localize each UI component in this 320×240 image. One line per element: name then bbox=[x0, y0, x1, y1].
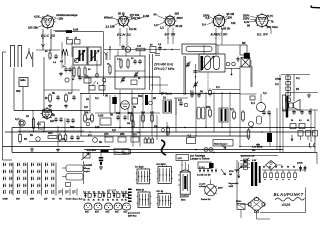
svg-text:0,1: 0,1 bbox=[116, 191, 119, 193]
svg-text:250V: 250V bbox=[177, 16, 183, 20]
svg-text:1k: 1k bbox=[26, 114, 29, 118]
svg-text:gemessen mit: gemessen mit bbox=[241, 155, 255, 158]
svg-text:0,1: 0,1 bbox=[299, 120, 302, 122]
svg-text:0,5: 0,5 bbox=[84, 105, 88, 109]
svg-text:0,65 3k: 0,65 3k bbox=[221, 26, 230, 30]
svg-text:EM84: EM84 bbox=[180, 195, 189, 199]
svg-text:5k: 5k bbox=[102, 199, 104, 201]
svg-text:1,2: 1,2 bbox=[160, 26, 164, 30]
svg-text:50: 50 bbox=[281, 167, 283, 169]
svg-text:8k: 8k bbox=[52, 113, 55, 117]
svg-text:235V: 235V bbox=[243, 17, 249, 21]
svg-text:0,1: 0,1 bbox=[275, 82, 279, 86]
svg-text:85 1k: 85 1k bbox=[118, 12, 125, 16]
svg-text:50: 50 bbox=[24, 137, 27, 141]
svg-text:ECH 81: ECH 81 bbox=[117, 32, 132, 37]
svg-text:5,7V: 5,7V bbox=[268, 14, 274, 18]
svg-text:64: 64 bbox=[154, 13, 157, 17]
svg-text:Netzschalter: Netzschalter bbox=[115, 151, 127, 154]
svg-text:5k: 5k bbox=[93, 199, 95, 201]
svg-text:50: 50 bbox=[275, 167, 277, 169]
svg-text:5k: 5k bbox=[88, 199, 90, 201]
svg-text:0,1: 0,1 bbox=[296, 76, 300, 80]
svg-text:470k: 470k bbox=[275, 77, 281, 81]
svg-text:0,1: 0,1 bbox=[88, 191, 91, 193]
svg-text:0,1: 0,1 bbox=[230, 107, 234, 111]
svg-text:30k: 30k bbox=[16, 89, 21, 93]
svg-text:62 2k: 62 2k bbox=[176, 24, 183, 28]
svg-text:Lampe u Rohre: Lampe u Rohre bbox=[190, 157, 210, 161]
svg-text:ratio: ratio bbox=[20, 78, 26, 82]
svg-text:0,5: 0,5 bbox=[178, 98, 182, 102]
svg-text:BLAUPUNKT: BLAUPUNKT bbox=[274, 192, 304, 197]
svg-text:50: 50 bbox=[307, 120, 309, 122]
svg-text:0,1: 0,1 bbox=[68, 91, 72, 95]
svg-text:12k: 12k bbox=[231, 21, 236, 25]
svg-text:50k: 50k bbox=[128, 111, 133, 115]
svg-text:220V: 220V bbox=[218, 188, 223, 190]
svg-text:50: 50 bbox=[263, 167, 265, 169]
svg-text:0,1: 0,1 bbox=[121, 191, 124, 193]
svg-text:0,5: 0,5 bbox=[206, 16, 210, 20]
svg-text:1M: 1M bbox=[127, 123, 130, 125]
svg-text:gemessen bei: gemessen bei bbox=[128, 213, 140, 215]
svg-text:0,1: 0,1 bbox=[98, 191, 101, 193]
svg-text:0,1 25k 0,5 1M: 0,1 25k 0,5 1M bbox=[197, 175, 211, 177]
svg-text:ZF Verst: ZF Verst bbox=[161, 92, 172, 96]
svg-text:0,1: 0,1 bbox=[102, 191, 105, 193]
svg-text:5k: 5k bbox=[52, 91, 55, 95]
svg-text:25k: 25k bbox=[120, 132, 125, 136]
svg-text:1k: 1k bbox=[86, 97, 89, 101]
svg-text:5k: 5k bbox=[121, 199, 123, 201]
svg-text:960mV: 960mV bbox=[104, 16, 113, 20]
svg-text:5,4: 5,4 bbox=[251, 101, 255, 105]
svg-text:470: 470 bbox=[104, 132, 109, 136]
svg-text:12k: 12k bbox=[95, 125, 100, 129]
svg-text:7k: 7k bbox=[271, 20, 274, 24]
svg-text:0,1: 0,1 bbox=[93, 191, 96, 193]
svg-text:1k: 1k bbox=[163, 96, 166, 100]
svg-text:1M: 1M bbox=[229, 174, 232, 176]
svg-text:schirm: schirm bbox=[199, 186, 206, 188]
svg-text:30: 30 bbox=[105, 94, 108, 98]
svg-text:0,1: 0,1 bbox=[216, 85, 220, 89]
svg-text:5k: 5k bbox=[125, 199, 127, 201]
svg-text:1,9 2k: 1,9 2k bbox=[129, 27, 137, 31]
svg-text:230: 230 bbox=[228, 16, 233, 20]
svg-text:0,5: 0,5 bbox=[112, 128, 116, 132]
svg-text:6,3V: 6,3V bbox=[244, 20, 250, 24]
svg-text:0,1: 0,1 bbox=[190, 90, 194, 94]
svg-text:5k: 5k bbox=[83, 199, 85, 201]
svg-text:50: 50 bbox=[200, 90, 203, 94]
svg-text:0,05 250V: 0,05 250V bbox=[87, 150, 97, 152]
svg-text:Klang: Klang bbox=[84, 168, 91, 170]
svg-text:regler: regler bbox=[84, 170, 90, 173]
svg-text:3k: 3k bbox=[99, 140, 102, 144]
svg-text:1,6: 1,6 bbox=[154, 23, 158, 27]
svg-text:5k: 5k bbox=[98, 199, 100, 201]
svg-text:5,4: 5,4 bbox=[202, 23, 206, 27]
svg-text:0,3: 0,3 bbox=[87, 117, 91, 121]
svg-text:300: 300 bbox=[48, 131, 53, 135]
svg-text:220V Netz: 220V Netz bbox=[128, 215, 137, 218]
svg-text:0,1: 0,1 bbox=[44, 115, 48, 119]
svg-text:5k: 5k bbox=[112, 199, 114, 201]
svg-text:25k: 25k bbox=[206, 105, 211, 109]
svg-text:50: 50 bbox=[287, 167, 289, 169]
svg-text:0,1: 0,1 bbox=[188, 134, 192, 138]
svg-text:TA: TA bbox=[52, 199, 55, 201]
svg-text:5k: 5k bbox=[116, 199, 118, 201]
svg-text:0,5: 0,5 bbox=[150, 111, 154, 115]
svg-text:4325: 4325 bbox=[281, 202, 292, 207]
svg-text:180 18k: 180 18k bbox=[28, 26, 38, 30]
svg-text:50: 50 bbox=[291, 120, 293, 122]
svg-text:50: 50 bbox=[293, 167, 295, 169]
svg-text:EABC 80: EABC 80 bbox=[211, 32, 229, 37]
svg-text:2,2M: 2,2M bbox=[143, 14, 150, 18]
svg-text:EABC 80: EABC 80 bbox=[136, 189, 144, 192]
svg-text:5k: 5k bbox=[133, 105, 136, 109]
svg-text:4,2V: 4,2V bbox=[34, 15, 40, 19]
svg-text:220V~: 220V~ bbox=[236, 201, 243, 203]
svg-text:1 2 3 4: 1 2 3 4 bbox=[199, 166, 205, 169]
svg-text:50k: 50k bbox=[70, 125, 75, 129]
svg-text:3,5W: 3,5W bbox=[229, 186, 234, 188]
svg-text:ECC 85: ECC 85 bbox=[157, 191, 164, 193]
svg-text:0,1: 0,1 bbox=[83, 191, 86, 193]
svg-text:2k: 2k bbox=[30, 133, 33, 137]
svg-text:Von EL84: Von EL84 bbox=[135, 165, 144, 168]
svg-text:Dunkel 0,8: Dunkel 0,8 bbox=[201, 199, 210, 201]
svg-text:2,1 18k: 2,1 18k bbox=[106, 24, 115, 28]
svg-text:ECH EF89: ECH EF89 bbox=[157, 164, 166, 166]
svg-text:ZFt=10,7 MHz: ZFt=10,7 MHz bbox=[153, 67, 175, 71]
svg-text:0,1: 0,1 bbox=[133, 132, 137, 136]
svg-text:25: 25 bbox=[62, 137, 65, 141]
svg-text:0,1: 0,1 bbox=[88, 133, 92, 137]
svg-text:0,1: 0,1 bbox=[37, 122, 41, 126]
svg-text:0,1: 0,1 bbox=[263, 91, 267, 95]
svg-text:6,3V: 6,3V bbox=[178, 158, 183, 160]
svg-text:2x300: 2x300 bbox=[297, 163, 303, 165]
svg-text:5k: 5k bbox=[107, 199, 109, 201]
svg-text:–12k: –12k bbox=[57, 16, 63, 20]
svg-text:EL 84: EL 84 bbox=[257, 32, 268, 37]
svg-text:Skalenlampen: Skalenlampen bbox=[214, 143, 228, 145]
svg-text:4,7k 0,47M: 4,7k 0,47M bbox=[252, 146, 263, 149]
svg-text:0,05: 0,05 bbox=[98, 114, 104, 118]
svg-text:Lautst: Lautst bbox=[84, 163, 92, 167]
svg-text:50: 50 bbox=[269, 167, 271, 169]
svg-text:6,3V: 6,3V bbox=[252, 160, 257, 162]
svg-text:50k: 50k bbox=[138, 94, 143, 98]
svg-text:alle 0,05: alle 0,05 bbox=[107, 189, 117, 192]
svg-text:96: 96 bbox=[247, 24, 250, 28]
svg-text:25: 25 bbox=[296, 87, 299, 91]
svg-text:0,96: 0,96 bbox=[73, 27, 79, 31]
svg-text:30k: 30k bbox=[84, 111, 89, 115]
svg-text:0,1: 0,1 bbox=[95, 96, 99, 100]
svg-text:225: 225 bbox=[175, 12, 180, 16]
svg-text:2k: 2k bbox=[153, 96, 156, 100]
svg-text:Tonbl: Tonbl bbox=[66, 199, 72, 201]
svg-text:0,2: 0,2 bbox=[15, 117, 19, 121]
svg-text:EF 89: EF 89 bbox=[165, 32, 176, 37]
svg-text:NF: NF bbox=[242, 41, 246, 45]
svg-text:0,1: 0,1 bbox=[125, 191, 128, 193]
svg-text:6k: 6k bbox=[110, 113, 113, 117]
